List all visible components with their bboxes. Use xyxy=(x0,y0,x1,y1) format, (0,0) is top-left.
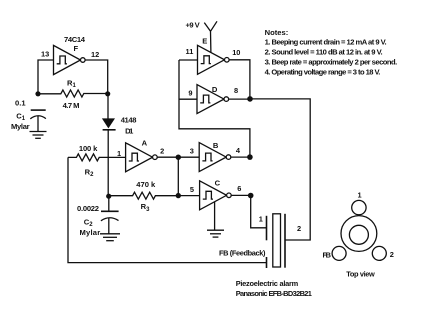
wire R2 to feedback rail xyxy=(68,157,267,262)
resistor R1 xyxy=(38,90,108,97)
power +9V arrow xyxy=(204,21,217,52)
svg-text:F: F xyxy=(74,44,79,53)
svg-text:Top view: Top view xyxy=(346,269,375,278)
op-amp U1F (74C14 inverter F) xyxy=(54,45,86,74)
svg-text:+9 V: +9 V xyxy=(186,20,201,29)
svg-text:2. Sound level = 110 dB at 12: 2. Sound level = 110 dB at 12 in. at 9 V… xyxy=(265,48,383,57)
svg-text:470 k: 470 k xyxy=(136,180,156,189)
svg-text:1: 1 xyxy=(259,214,263,223)
op-amp U1A (inverter A) xyxy=(126,143,158,172)
wire E input xyxy=(179,59,198,61)
svg-text:Piezoelectric alarm: Piezoelectric alarm xyxy=(236,279,299,288)
op-amp U1E (inverter E) xyxy=(198,45,230,74)
wire D output xyxy=(229,98,250,100)
piezo top view inner circle xyxy=(349,225,368,244)
svg-text:4. Operating voltage range = 3: 4. Operating voltage range = 3 to 18 V. xyxy=(265,68,381,77)
node junction C out xyxy=(248,193,254,199)
ground stem inverter C xyxy=(214,202,216,230)
resistor R2 xyxy=(68,154,108,161)
piezo top view FB terminal circle xyxy=(332,246,346,260)
ground C1 xyxy=(30,132,47,139)
svg-text:FB: FB xyxy=(323,251,332,260)
svg-text:4148: 4148 xyxy=(121,115,137,124)
op-amp U1B (inverter B) xyxy=(199,143,231,172)
svg-text:3. Beep rate = approximately 2: 3. Beep rate = approximately 2 per secon… xyxy=(265,58,398,67)
svg-text:3: 3 xyxy=(190,147,194,156)
svg-text:10: 10 xyxy=(232,48,240,57)
svg-text:1. Beeping current drain = 12: 1. Beeping current drain = 12 mA at 9 V. xyxy=(265,38,387,47)
svg-text:5: 5 xyxy=(190,185,194,194)
svg-text:Mylar: Mylar xyxy=(11,122,30,131)
wire D/E out to piezo pin 2 xyxy=(250,99,310,240)
svg-text:A: A xyxy=(142,138,148,147)
svg-text:4: 4 xyxy=(236,146,241,155)
wire B output xyxy=(231,156,250,158)
wire node vertical (F out to diode) xyxy=(107,94,109,119)
svg-text:R1: R1 xyxy=(67,79,76,90)
wire A input xyxy=(108,156,126,158)
svg-text:9: 9 xyxy=(188,88,192,97)
svg-text:C: C xyxy=(215,178,221,187)
svg-text:4.7 M: 4.7 M xyxy=(63,101,80,110)
wire F output xyxy=(85,60,108,94)
piezo top view terminal 2 circle xyxy=(372,246,386,260)
svg-text:Panasonic EFB-BD32B21: Panasonic EFB-BD32B21 xyxy=(236,289,312,298)
svg-text:74C14: 74C14 xyxy=(64,35,86,44)
capacitor C2 xyxy=(101,196,119,234)
piezo ceramic disc xyxy=(273,214,281,267)
piezo top view big circle xyxy=(341,216,377,252)
wire A output to B input xyxy=(157,156,199,158)
node junction dot left xyxy=(35,91,40,96)
wire diode to A input node xyxy=(107,130,109,196)
svg-text:1: 1 xyxy=(358,190,362,199)
capacitor C1 xyxy=(30,110,46,131)
piezo element plate 1 xyxy=(266,216,268,241)
svg-text:6: 6 xyxy=(237,184,241,193)
node junction A out xyxy=(176,155,181,160)
svg-text:B: B xyxy=(213,141,219,150)
ground C2 xyxy=(100,234,120,241)
svg-text:8: 8 xyxy=(234,86,238,95)
node junction C2/R3 xyxy=(106,194,111,199)
wire D input xyxy=(179,98,197,100)
svg-text:2: 2 xyxy=(297,224,301,233)
svg-text:C1: C1 xyxy=(16,111,25,122)
node junction R3 right xyxy=(176,193,181,198)
wire A out node down to R3 node xyxy=(177,157,179,195)
svg-text:2: 2 xyxy=(160,147,164,156)
diode D1 (1N4148) xyxy=(102,118,116,129)
svg-text:13: 13 xyxy=(41,50,49,59)
svg-text:0.1: 0.1 xyxy=(15,98,26,107)
wire F input xyxy=(38,60,54,94)
node junction D/E out xyxy=(247,96,253,102)
piezo right plate xyxy=(284,214,286,268)
svg-text:R2: R2 xyxy=(85,168,94,179)
wire C out to piezo pin 1 xyxy=(251,196,267,228)
piezo top view terminal 1 circle xyxy=(352,200,366,214)
svg-text:11: 11 xyxy=(186,47,194,56)
svg-text:D: D xyxy=(212,85,218,94)
svg-text:C2: C2 xyxy=(84,218,93,229)
piezo FB plate xyxy=(266,257,268,268)
svg-text:100 k: 100 k xyxy=(79,144,98,153)
op-amp U1C (inverter C) xyxy=(200,181,232,210)
node junction B out xyxy=(247,154,253,160)
ground inverter C xyxy=(207,230,224,237)
svg-text:Mylar: Mylar xyxy=(80,228,101,237)
svg-text:12: 12 xyxy=(91,50,99,59)
svg-text:D1: D1 xyxy=(125,127,134,136)
svg-text:R3: R3 xyxy=(141,202,150,213)
svg-text:FB (Feedback): FB (Feedback) xyxy=(219,248,266,257)
wire B out to D/E inputs xyxy=(179,60,250,157)
svg-text:Notes:: Notes: xyxy=(265,28,289,37)
svg-text:0.0022: 0.0022 xyxy=(77,204,99,213)
node junction dot right xyxy=(105,91,110,96)
svg-text:2: 2 xyxy=(390,250,394,259)
svg-text:E: E xyxy=(202,36,207,45)
wire C output xyxy=(231,194,251,196)
wire E output to D out node xyxy=(229,60,250,99)
resistor R3 xyxy=(109,192,179,199)
svg-text:1: 1 xyxy=(117,149,121,158)
wire C input xyxy=(178,195,199,197)
op-amp U1D (inverter D) xyxy=(197,85,229,114)
